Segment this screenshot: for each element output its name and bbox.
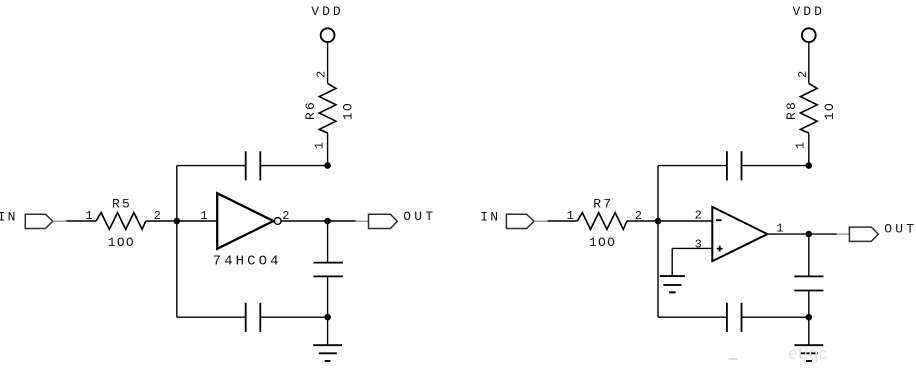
svg-text:1O: 1O: [822, 102, 837, 120]
connector J-IN-R pin stub: [534, 220, 548, 222]
capacitor C-bot-L right wire: [260, 316, 327, 318]
capacitor C-top-L plates: [246, 151, 261, 180]
capacitor C-top-R right wire: [742, 165, 809, 167]
svg-text:et/qc: et/qc: [788, 344, 828, 363]
svg-text:OUT: OUT: [884, 222, 916, 237]
ground symbol (op-amp plus input): [660, 276, 685, 292]
connector J-IN-R pentagon symbol: [506, 214, 534, 228]
junction node F: [806, 231, 813, 238]
capacitor C-bot-L plates: [246, 303, 261, 332]
wire node B down to capacitor C-mid-L: [327, 221, 329, 263]
junction node D: [324, 314, 331, 321]
wire IN to R7 pin1: [548, 220, 578, 222]
watermark small dash: [729, 358, 738, 360]
capacitor C-bot-R plates: [727, 303, 742, 332]
op-amp U2 minus sign: [716, 219, 722, 221]
wire node E to U2 inverting input: [658, 220, 712, 222]
svg-text:OUT: OUT: [403, 209, 436, 224]
wire node A to U1 input: [177, 220, 217, 222]
wire R6 pin1 to node C: [327, 133, 329, 166]
capacitor C-bot-R right wire: [742, 316, 809, 318]
connector J-OUT-R pentagon symbol: [849, 227, 878, 241]
wire node F to OUT connector: [809, 233, 837, 235]
junction node A: [174, 218, 181, 225]
connector J-IN-L pentagon symbol: [25, 214, 53, 228]
wire node F down to capacitor C-mid-R: [808, 234, 810, 276]
svg-text:1: 1: [567, 209, 574, 223]
svg-text:74HCO4: 74HCO4: [213, 253, 282, 269]
wire VDD to R8 pin2: [808, 42, 810, 83]
resistor R7 body: [577, 213, 627, 230]
svg-text:R5: R5: [112, 197, 132, 212]
ground symbol (left): [313, 345, 342, 361]
connector J-OUT-R pin stub: [837, 233, 850, 235]
wire U2 plus input: [672, 247, 712, 249]
svg-text:2: 2: [315, 71, 329, 78]
svg-text:IN: IN: [480, 209, 500, 224]
wire feedback rail right-circuit left vertical: [657, 166, 659, 318]
svg-text:R7: R7: [593, 197, 613, 212]
capacitor C-top-L left wire: [177, 165, 246, 167]
svg-text:R8: R8: [784, 100, 799, 120]
svg-text:1: 1: [85, 209, 92, 223]
capacitor C-top-L right wire: [260, 165, 327, 167]
svg-text:1OO: 1OO: [589, 235, 616, 250]
inverter U1 triangle: [217, 193, 273, 249]
svg-text:2: 2: [695, 209, 702, 223]
ground symbol (right): [794, 345, 823, 361]
junction node E: [655, 218, 662, 225]
svg-text:2: 2: [796, 71, 810, 78]
svg-text:VDD: VDD: [311, 4, 343, 19]
connector J-OUT-L pin stub: [356, 220, 369, 222]
wire VDD to R6 pin2: [327, 42, 329, 83]
svg-text:VDD: VDD: [792, 4, 824, 19]
svg-text:1OO: 1OO: [108, 235, 135, 250]
svg-text:1: 1: [313, 142, 327, 149]
capacitor C-mid-R plates: [794, 276, 823, 290]
wire feedback rail left vertical: [176, 166, 178, 318]
junction node G (top of output rail right): [806, 162, 813, 169]
op-amp U2 triangle: [712, 207, 767, 261]
capacitor C-mid-L plates: [314, 263, 343, 277]
connector J-IN-L pin stub: [53, 220, 67, 222]
resistor R5 body: [96, 213, 146, 230]
wire R8 pin1 to node G: [808, 133, 810, 166]
capacitor C-top-R left wire: [658, 165, 727, 167]
wire IN to R5 pin1: [66, 220, 96, 222]
wire U1 output to node B: [281, 220, 327, 222]
wire R5 pin2 to node A: [146, 220, 177, 222]
capacitor C-bot-L left wire: [177, 316, 246, 318]
svg-text:R6: R6: [303, 100, 318, 120]
connector J-OUT-L pentagon symbol: [369, 214, 398, 228]
svg-text:3: 3: [695, 237, 702, 251]
op-amp U2 plus sign: [717, 246, 723, 252]
svg-text:1: 1: [776, 221, 783, 235]
svg-text:1O: 1O: [341, 102, 356, 120]
capacitor C-bot-R left wire: [658, 316, 727, 318]
wire C-mid-R to node H: [808, 291, 810, 318]
inverter U1 output bubble: [274, 218, 281, 225]
wire node H to ground (right): [808, 317, 810, 345]
resistor R8 body (vertical): [800, 83, 817, 133]
wire U2 output to node F: [767, 233, 808, 235]
capacitor C-top-R plates: [727, 151, 742, 180]
svg-text:IN: IN: [0, 209, 18, 224]
wire plus input down to ground: [671, 248, 673, 276]
wire node D to ground (left): [327, 317, 329, 345]
svg-text:1: 1: [794, 142, 808, 149]
resistor R6 body (vertical): [319, 83, 336, 133]
junction node B: [324, 218, 331, 225]
wire R7 pin2 to node E: [627, 220, 658, 222]
svg-text:1: 1: [200, 209, 207, 223]
wire C-mid-L to node D: [327, 276, 329, 317]
wire node B to OUT connector: [328, 220, 356, 222]
junction node H: [806, 314, 813, 321]
junction node C (top of output rail): [324, 162, 331, 169]
